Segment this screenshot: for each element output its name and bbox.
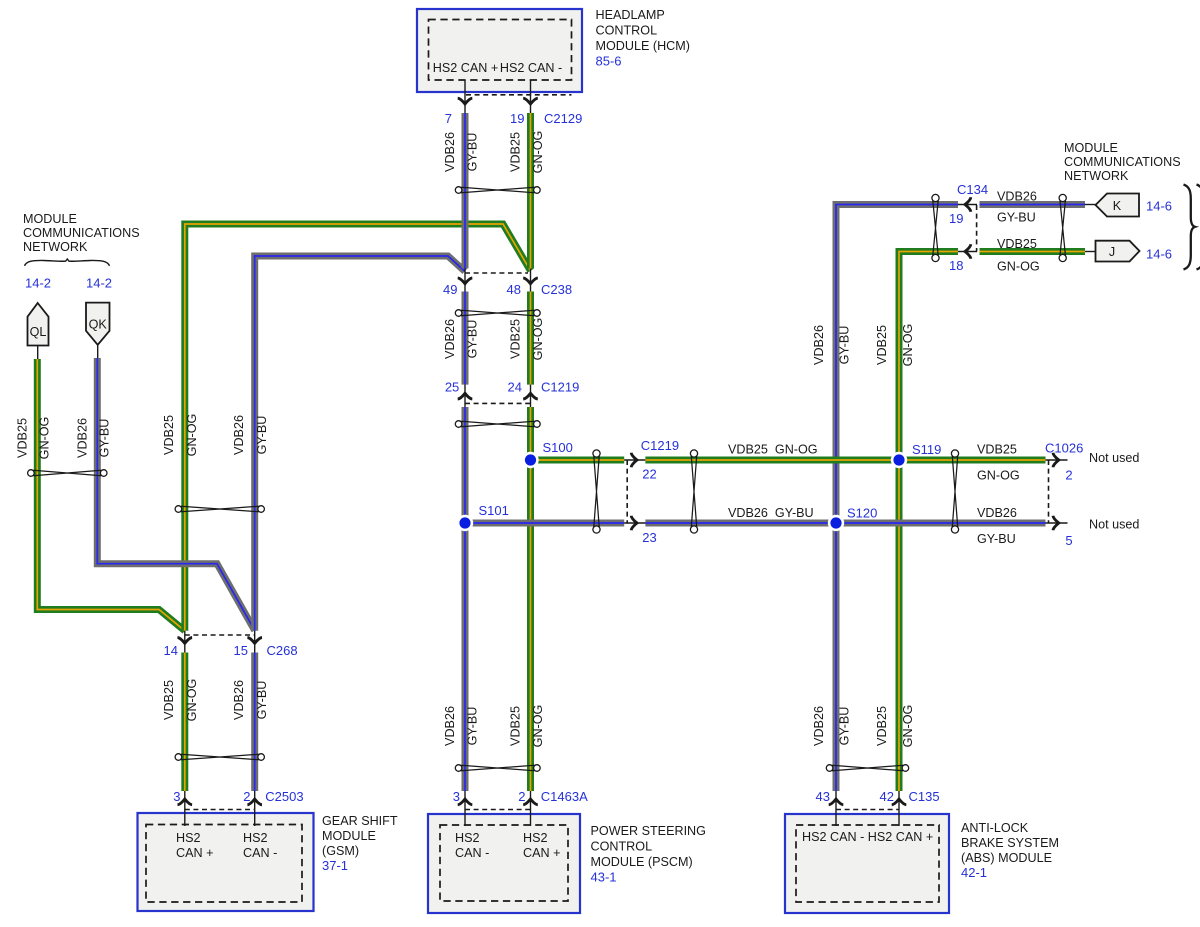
svg-text:14-6: 14-6 bbox=[1146, 199, 1172, 214]
svg-text:VDB25: VDB25 bbox=[977, 443, 1017, 457]
twisted pair symbol below QL/QK bbox=[28, 470, 107, 477]
wire C134 pin 19 lead bbox=[958, 204, 977, 206]
arrow into C135 pin 43 bbox=[829, 799, 844, 805]
svg-text:GY-BU: GY-BU bbox=[838, 326, 852, 365]
svg-text:S119: S119 bbox=[912, 442, 941, 457]
arrow into C134 pin 18 bbox=[965, 244, 971, 259]
svg-text:49: 49 bbox=[443, 282, 457, 297]
svg-text:GN-OG: GN-OG bbox=[185, 679, 199, 722]
svg-text:C134: C134 bbox=[957, 182, 988, 197]
connector C268 mating line bbox=[185, 634, 255, 636]
wire C135 pin 42 lead bbox=[898, 791, 900, 826]
twisted pair symbol left of C1219 in-line bbox=[593, 450, 600, 533]
twisted pair symbol below C2129 bbox=[455, 187, 540, 194]
wire C1219 pin 22 lead bbox=[624, 459, 645, 461]
wire VDB25 GN-OG from C134 pin 18 to connector J bbox=[980, 248, 1086, 255]
svg-text:VDB26: VDB26 bbox=[812, 706, 826, 746]
wire C135 pin 43 lead bbox=[835, 791, 837, 826]
svg-text:GN-OG: GN-OG bbox=[185, 414, 199, 457]
svg-text:19: 19 bbox=[949, 211, 963, 226]
svg-text:VDB25: VDB25 bbox=[509, 319, 523, 359]
module GSM box bbox=[138, 813, 314, 911]
wire C268 pin 14 lead bbox=[184, 631, 186, 653]
svg-text:C238: C238 bbox=[541, 282, 572, 297]
arrow into C1219 pin 25 bbox=[458, 393, 473, 399]
wire C238 pin 48 lead bbox=[530, 269, 532, 292]
svg-text:GY-BU: GY-BU bbox=[997, 211, 1036, 225]
wire VDB25 GN-OG C238 to C1219 pin 24 bbox=[527, 292, 534, 385]
svg-text:HS2 CAN -: HS2 CAN - bbox=[500, 61, 562, 75]
svg-text:HS2 CAN +: HS2 CAN + bbox=[433, 61, 498, 75]
svg-text:VDB26: VDB26 bbox=[443, 706, 457, 746]
wire VDB26 GY-BU C268 to GSM pin 2 bbox=[251, 653, 258, 792]
wire C1026 pin 2 lead bbox=[1046, 459, 1068, 461]
arrow into C2503 pin 2 bbox=[247, 799, 262, 805]
svg-text:48: 48 bbox=[507, 282, 521, 297]
svg-text:15: 15 bbox=[234, 643, 248, 658]
wire connector K lead bbox=[1085, 204, 1096, 206]
connector C134 mating line bbox=[976, 205, 978, 252]
wire VDB26 GY-BU from C134 pin 19 to connector K bbox=[980, 201, 1086, 208]
svg-text:GY-BU: GY-BU bbox=[466, 133, 480, 172]
connector C135 mating line bbox=[836, 809, 899, 811]
arrow into C1026 pin 5 bbox=[1053, 516, 1059, 531]
wire QL tail bbox=[37, 346, 39, 360]
svg-text:85-6: 85-6 bbox=[596, 54, 622, 69]
svg-text:3: 3 bbox=[173, 789, 180, 804]
svg-text:GY-BU: GY-BU bbox=[838, 707, 852, 746]
svg-text:GN-OG: GN-OG bbox=[531, 131, 545, 174]
svg-text:VDB25: VDB25 bbox=[509, 706, 523, 746]
wire VDB25 GN-OG from C1219 pin 22 through S119 to C1026 pin 2 bbox=[645, 457, 1045, 464]
svg-text:S101: S101 bbox=[479, 503, 509, 518]
svg-text:CAN +: CAN + bbox=[523, 846, 560, 860]
left network brace bbox=[25, 259, 110, 266]
splice S100 bbox=[522, 452, 538, 468]
svg-text:GN-OG: GN-OG bbox=[997, 260, 1040, 274]
connector C238 mating line bbox=[465, 272, 528, 274]
right network brace 2 (clipped) bbox=[1197, 185, 1200, 270]
module ABS box bbox=[785, 814, 949, 913]
svg-text:C1219: C1219 bbox=[541, 380, 579, 395]
svg-text:GN-OG: GN-OG bbox=[38, 417, 52, 460]
arrow into C1463A pin 2 bbox=[523, 799, 538, 805]
right network brace bbox=[1184, 185, 1196, 270]
svg-text:HS2: HS2 bbox=[455, 831, 480, 845]
wire C134 pin 18 lead bbox=[958, 251, 977, 253]
arrow into C1219 pin 23 bbox=[631, 516, 637, 531]
svg-text:23: 23 bbox=[642, 530, 656, 545]
twisted pair symbol left of C134 bbox=[932, 194, 939, 261]
connector J bbox=[1096, 241, 1140, 262]
wire VDB25 GN-OG from C268 pin 14 to C238 pin 48 bbox=[185, 224, 531, 631]
wire VDB25 GN-OG from QL to C268 pin 14 bbox=[37, 359, 185, 631]
wire QK tail bbox=[97, 345, 99, 358]
svg-text:GN-OG: GN-OG bbox=[531, 705, 545, 748]
connector C1463A mating line bbox=[465, 809, 531, 811]
connector C1219 mating line bbox=[465, 402, 531, 404]
svg-text:37-1: 37-1 bbox=[322, 858, 348, 873]
twisted pair symbol below C238 bbox=[455, 310, 540, 317]
svg-text:18: 18 bbox=[949, 258, 963, 273]
svg-text:14-2: 14-2 bbox=[25, 276, 51, 291]
wire C238 pin 49 lead bbox=[464, 269, 466, 292]
svg-text:C2129: C2129 bbox=[544, 111, 582, 126]
arrow into C238 pin 48 bbox=[523, 278, 538, 284]
svg-text:25: 25 bbox=[445, 380, 459, 395]
module PSCM box bbox=[428, 814, 580, 913]
svg-text:HEADLAMP: HEADLAMP bbox=[596, 8, 665, 22]
svg-text:COMMUNICATIONS: COMMUNICATIONS bbox=[1064, 155, 1181, 169]
arrow into C1219 pin 24 bbox=[523, 393, 538, 399]
svg-text:CONTROL: CONTROL bbox=[591, 840, 653, 854]
svg-text:(GSM): (GSM) bbox=[322, 844, 359, 858]
svg-text:GY-BU: GY-BU bbox=[466, 320, 480, 359]
svg-text:ANTI-LOCK: ANTI-LOCK bbox=[961, 821, 1029, 835]
wire VDB26 GY-BU from QK to C268 pin 15 bbox=[97, 358, 254, 631]
svg-text:VDB26: VDB26 bbox=[232, 680, 246, 720]
arrow into C238 pin 49 bbox=[458, 278, 473, 284]
svg-text:GN-OG: GN-OG bbox=[977, 469, 1020, 483]
svg-text:POWER STEERING: POWER STEERING bbox=[591, 824, 706, 838]
svg-text:NETWORK: NETWORK bbox=[23, 240, 88, 254]
arrow into C268 pin 14 bbox=[178, 638, 193, 644]
wire C2503 pin 2 lead bbox=[254, 791, 256, 826]
svg-text:C2503: C2503 bbox=[265, 789, 303, 804]
svg-text:GY-BU: GY-BU bbox=[255, 681, 269, 720]
svg-text:COMMUNICATIONS: COMMUNICATIONS bbox=[23, 226, 140, 240]
wire HCM pin 7 lead bbox=[464, 80, 466, 113]
svg-text:C1219: C1219 bbox=[641, 438, 679, 453]
wire C1219 pin 23 lead bbox=[624, 522, 645, 524]
wire C1463A pin 2 lead bbox=[530, 791, 532, 826]
wire VDB26 GY-BU from C134 pin 19 through S120 to ABS pin 43 bbox=[836, 205, 958, 792]
svg-text:VDB25: VDB25 bbox=[162, 415, 176, 455]
twisted pair symbol above C1463A bbox=[455, 765, 540, 772]
arrow into C2129 pin 7 bbox=[458, 98, 473, 104]
svg-text:VDB25: VDB25 bbox=[997, 237, 1037, 251]
wire C1219 pin 24 lead bbox=[530, 385, 532, 407]
connector K bbox=[1096, 194, 1140, 217]
arrow into C268 pin 15 bbox=[247, 638, 262, 644]
connector QL bbox=[28, 303, 49, 346]
splice S119 bbox=[891, 452, 907, 468]
arrow into C134 pin 19 bbox=[965, 197, 971, 212]
svg-text:2: 2 bbox=[1065, 468, 1072, 483]
svg-text:43-1: 43-1 bbox=[591, 870, 617, 885]
wire C2503 pin 3 lead bbox=[184, 791, 186, 826]
svg-text:C268: C268 bbox=[267, 643, 298, 658]
connector C1219 in-line mating line bbox=[626, 460, 628, 523]
svg-text:K: K bbox=[1113, 199, 1122, 213]
wire VDB26 GY-BU from C268 pin 15 to C238 pin 49 bbox=[255, 256, 465, 631]
svg-text:VDB25 GN-OG: VDB25 GN-OG bbox=[728, 443, 818, 457]
svg-text:14-6: 14-6 bbox=[1146, 247, 1172, 262]
svg-text:HS2: HS2 bbox=[523, 831, 548, 845]
svg-text:VDB26: VDB26 bbox=[997, 190, 1037, 204]
svg-text:VDB26: VDB26 bbox=[232, 415, 246, 455]
svg-text:GY-BU: GY-BU bbox=[466, 707, 480, 746]
svg-text:GY-BU: GY-BU bbox=[255, 416, 269, 455]
wire VDB25 GN-OG from HCM pin 19 to C238 bbox=[527, 113, 534, 269]
svg-text:VDB26: VDB26 bbox=[443, 319, 457, 359]
wire C1219 pin 25 lead bbox=[464, 385, 466, 407]
wire VDB25 GN-OG from S100 to C1219 pin 22 bbox=[531, 457, 625, 464]
svg-text:GN-OG: GN-OG bbox=[531, 318, 545, 361]
svg-text:19: 19 bbox=[510, 111, 524, 126]
svg-text:MODULE (HCM): MODULE (HCM) bbox=[596, 39, 690, 53]
wire C1026 pin 5 lead bbox=[1046, 522, 1068, 524]
wire C268 pin 15 lead bbox=[254, 631, 256, 653]
arrow into C1463A pin 3 bbox=[458, 799, 473, 805]
splice S120 bbox=[828, 515, 844, 531]
svg-text:VDB25: VDB25 bbox=[509, 132, 523, 172]
svg-text:42-1: 42-1 bbox=[961, 865, 987, 880]
svg-text:VDB25: VDB25 bbox=[16, 418, 30, 458]
svg-text:CAN -: CAN - bbox=[455, 846, 489, 860]
svg-text:VDB26 GY-BU: VDB26 GY-BU bbox=[728, 506, 814, 520]
svg-text:3: 3 bbox=[453, 789, 460, 804]
svg-text:S100: S100 bbox=[543, 440, 573, 455]
svg-text:GY-BU: GY-BU bbox=[977, 532, 1016, 546]
module HCM box bbox=[417, 9, 582, 92]
svg-text:GN-OG: GN-OG bbox=[901, 705, 915, 748]
svg-text:VDB26: VDB26 bbox=[443, 132, 457, 172]
twisted pair symbol above C135 bbox=[826, 765, 908, 772]
svg-text:2: 2 bbox=[518, 789, 525, 804]
svg-text:CONTROL: CONTROL bbox=[596, 24, 658, 38]
svg-text:Not used: Not used bbox=[1089, 518, 1139, 532]
svg-text:C135: C135 bbox=[909, 789, 940, 804]
arrow into C135 pin 42 bbox=[892, 799, 907, 805]
wire VDB26 GY-BU from C1219 pin 23 through S120 to C1026 pin 5 bbox=[645, 520, 1045, 527]
twisted pair symbol above C2503 bbox=[175, 754, 264, 761]
arrow into C1219 pin 22 bbox=[631, 453, 637, 468]
twisted pair symbol right of C1219 in-line bbox=[690, 450, 697, 533]
twisted pair symbol below C1219 bbox=[455, 421, 540, 428]
svg-text:MODULE: MODULE bbox=[23, 212, 77, 226]
svg-text:HS2: HS2 bbox=[176, 831, 201, 845]
svg-text:MODULE: MODULE bbox=[322, 829, 376, 843]
wire VDB26 GY-BU from S101 to C1219 pin 23 bbox=[465, 520, 624, 527]
connector C1026 mating line bbox=[1048, 460, 1050, 523]
svg-text:CAN -: CAN - bbox=[243, 846, 277, 860]
svg-text:GN-OG: GN-OG bbox=[901, 324, 915, 367]
svg-text:VDB25: VDB25 bbox=[875, 325, 889, 365]
svg-text:5: 5 bbox=[1065, 533, 1072, 548]
wire VDB25 GN-OG C268 to GSM pin 3 bbox=[181, 653, 188, 792]
wire VDB25 GN-OG C1219 through S100 to PSCM pin 2 bbox=[527, 407, 534, 791]
wire VDB25 GN-OG from C134 pin 18 through S119 to ABS pin 42 bbox=[899, 252, 958, 792]
svg-text:BRAKE SYSTEM: BRAKE SYSTEM bbox=[961, 836, 1059, 850]
wire VDB26 GY-BU from HCM pin 7 to C238 bbox=[462, 113, 469, 269]
svg-text:J: J bbox=[1109, 245, 1115, 259]
svg-text:Not used: Not used bbox=[1089, 451, 1139, 465]
svg-text:NETWORK: NETWORK bbox=[1064, 169, 1129, 183]
twisted pair symbol right of C134 bbox=[1059, 194, 1066, 261]
wire HCM pin 19 lead bbox=[530, 80, 532, 113]
svg-text:42: 42 bbox=[880, 789, 894, 804]
svg-text:VDB26: VDB26 bbox=[977, 506, 1017, 520]
arrow into C2503 pin 3 bbox=[178, 799, 193, 805]
connector C2503 mating line bbox=[185, 809, 255, 811]
svg-text:HS2: HS2 bbox=[243, 831, 268, 845]
svg-text:MODULE: MODULE bbox=[1064, 141, 1118, 155]
wire C1463A pin 3 lead bbox=[464, 791, 466, 826]
svg-text:VDB25: VDB25 bbox=[875, 706, 889, 746]
svg-text:14: 14 bbox=[164, 643, 178, 658]
svg-text:VDB25: VDB25 bbox=[162, 680, 176, 720]
wire connector J lead bbox=[1085, 251, 1096, 253]
svg-text:43: 43 bbox=[816, 789, 830, 804]
arrow into C2129 pin 19 bbox=[523, 98, 538, 104]
svg-text:MODULE (PSCM): MODULE (PSCM) bbox=[591, 855, 693, 869]
svg-text:GEAR SHIFT: GEAR SHIFT bbox=[322, 814, 398, 828]
svg-text:S120: S120 bbox=[847, 506, 877, 521]
connector C2129 mating line bbox=[466, 94, 572, 96]
svg-text:(ABS) MODULE: (ABS) MODULE bbox=[961, 851, 1052, 865]
wire VDB26 GY-BU C238 to C1219 pin 25 bbox=[462, 292, 469, 385]
arrow into C1026 pin 2 bbox=[1053, 453, 1059, 468]
twisted pair symbol left of C1026 bbox=[951, 450, 958, 533]
svg-text:C1026: C1026 bbox=[1045, 441, 1083, 456]
svg-text:C1463A: C1463A bbox=[541, 789, 588, 804]
svg-text:22: 22 bbox=[642, 467, 656, 482]
svg-text:14-2: 14-2 bbox=[86, 276, 112, 291]
connector QK bbox=[86, 303, 110, 345]
svg-text:HS2 CAN - HS2 CAN +: HS2 CAN - HS2 CAN + bbox=[802, 830, 933, 844]
svg-text:QL: QL bbox=[30, 325, 47, 339]
svg-text:24: 24 bbox=[508, 380, 522, 395]
svg-text:VDB26: VDB26 bbox=[76, 418, 90, 458]
svg-text:VDB26: VDB26 bbox=[812, 325, 826, 365]
splice S101 bbox=[457, 515, 473, 531]
svg-text:2: 2 bbox=[243, 789, 250, 804]
svg-text:CAN +: CAN + bbox=[176, 846, 213, 860]
svg-text:GY-BU: GY-BU bbox=[98, 419, 112, 458]
wire VDB26 GY-BU C1219 through S101 to PSCM pin 3 bbox=[462, 407, 469, 791]
svg-text:QK: QK bbox=[89, 318, 108, 332]
svg-text:7: 7 bbox=[445, 111, 452, 126]
twisted pair symbol above C268 bbox=[175, 506, 264, 513]
